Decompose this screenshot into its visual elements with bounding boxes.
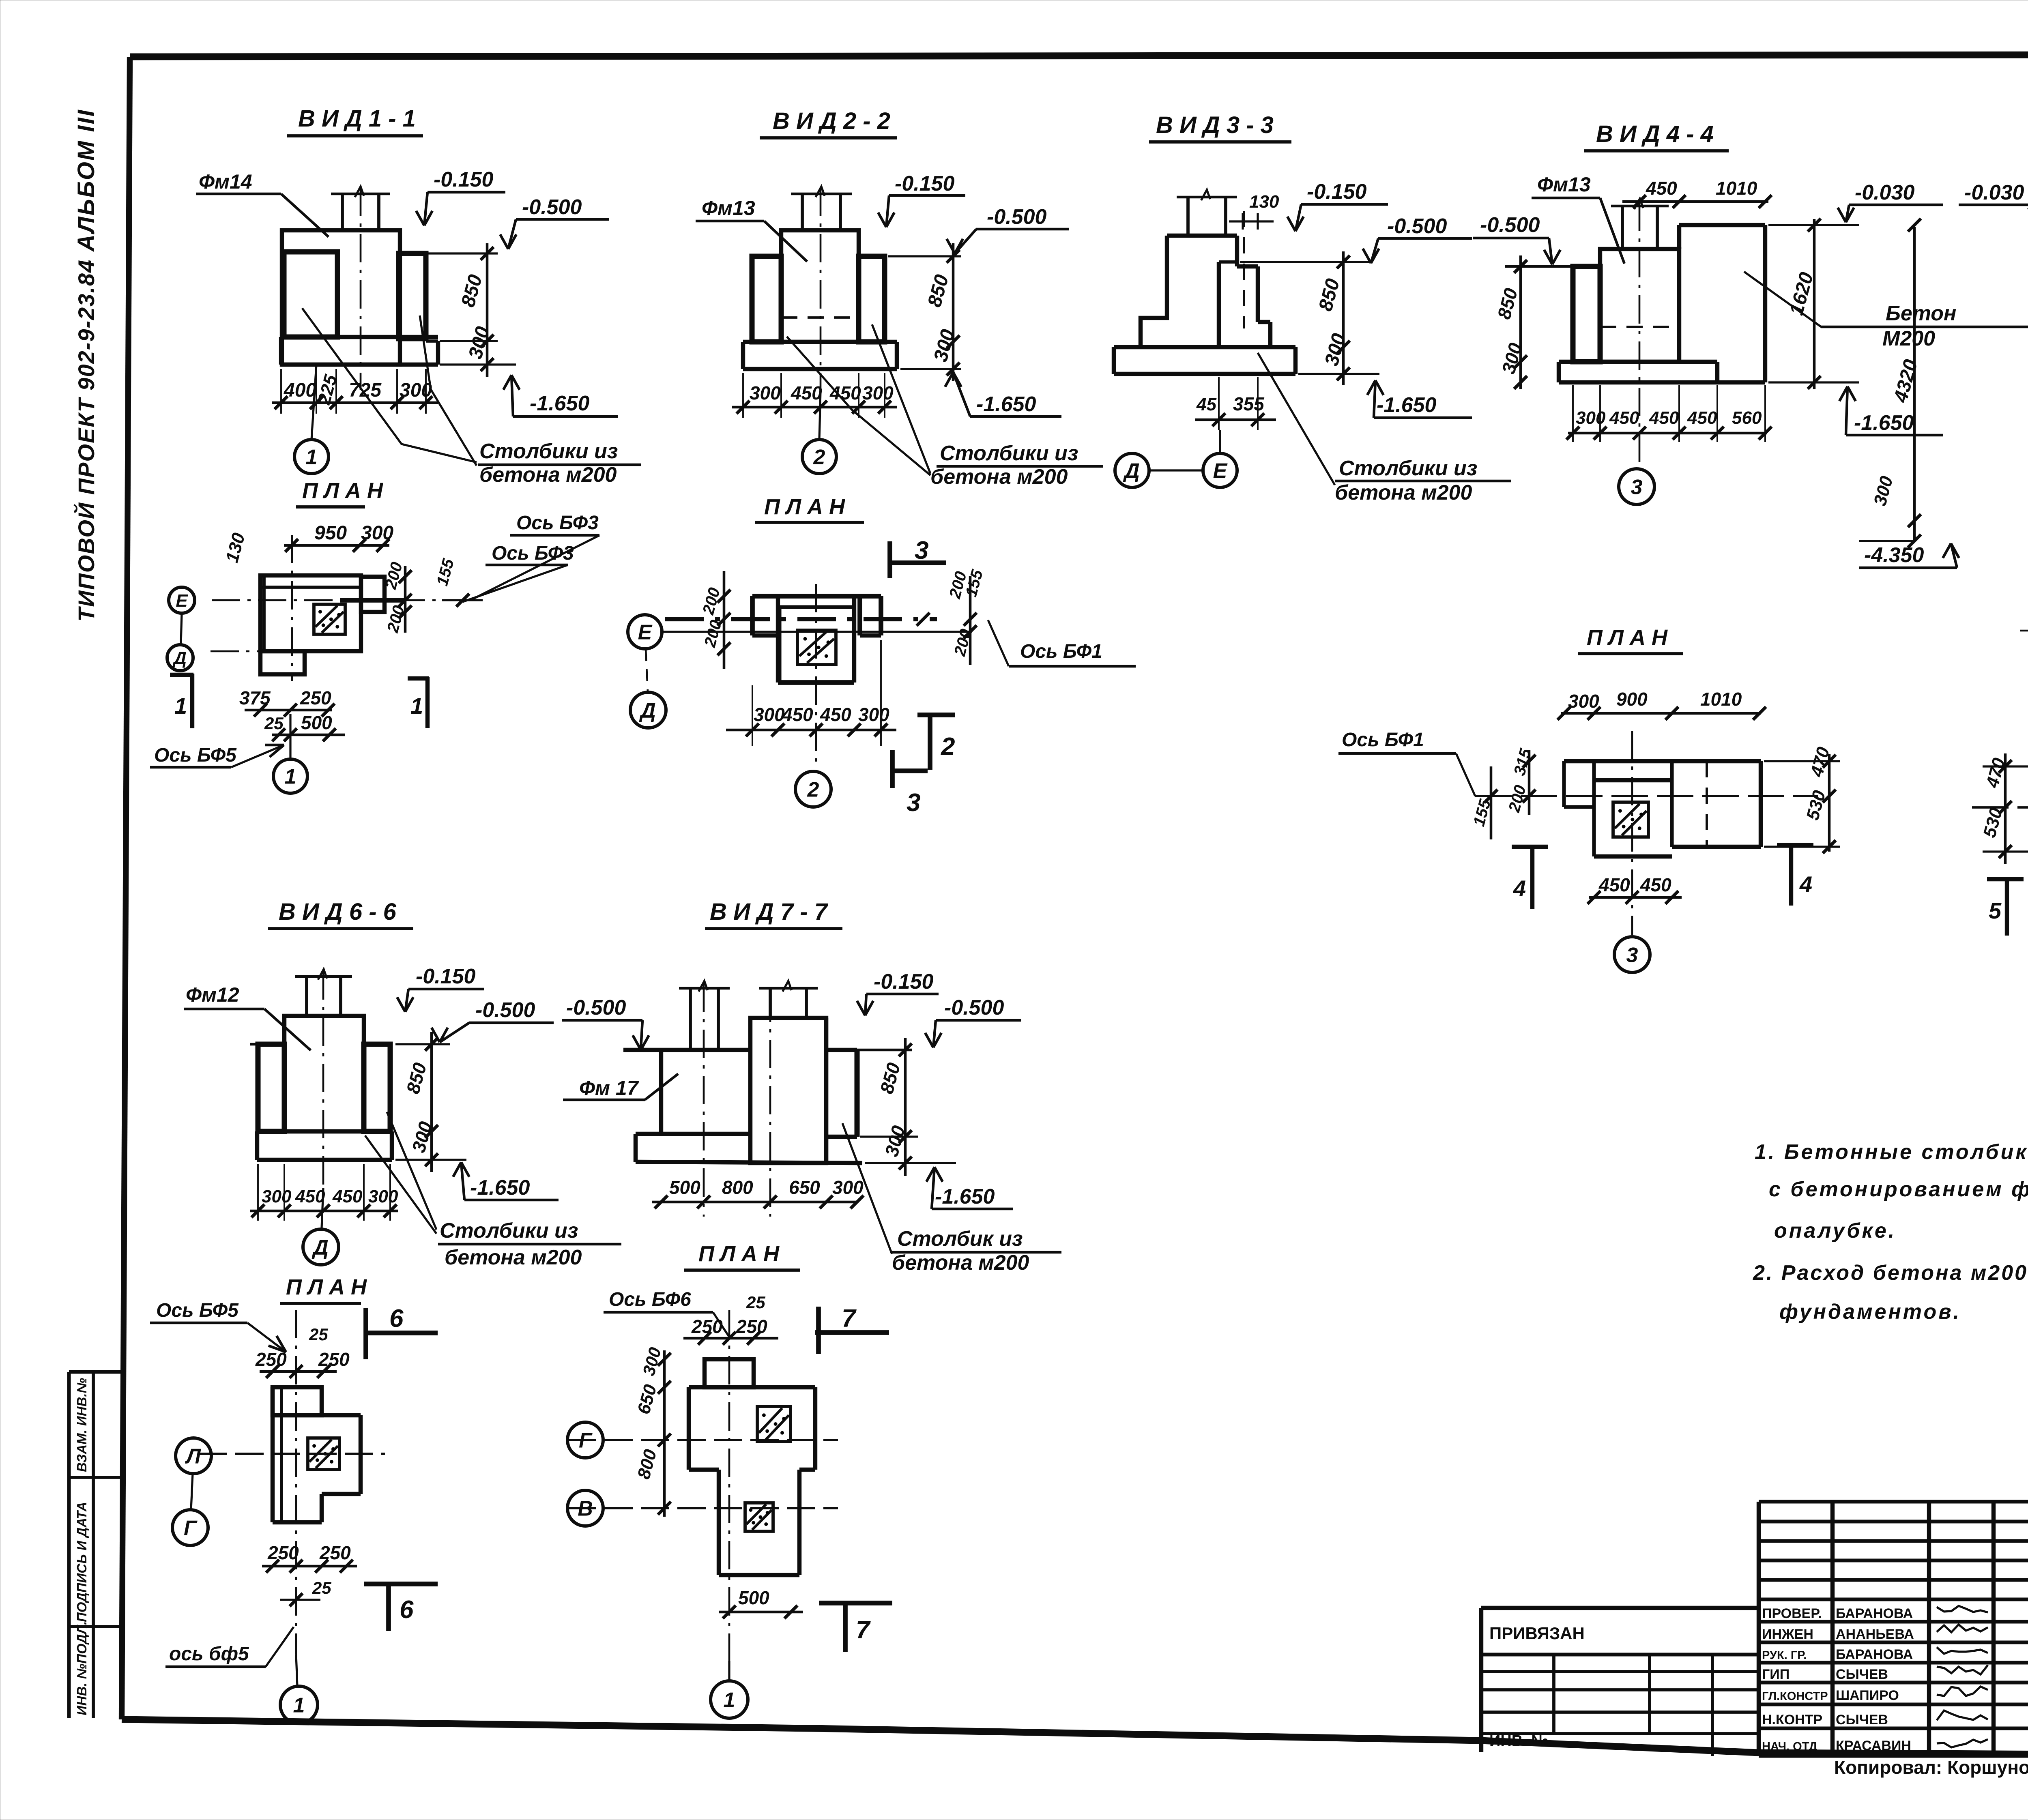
svg-text:450: 450 [820,704,851,725]
svg-text:560: 560 [1732,408,1762,428]
svg-text:900: 900 [1616,689,1648,710]
svg-text:250: 250 [736,1316,767,1337]
svg-text:В И Д 6 - 6: В И Д 6 - 6 [279,899,397,925]
svg-text:3: 3 [907,789,920,817]
svg-text:300: 300 [754,704,785,725]
svg-text:250: 250 [318,1349,350,1370]
svg-text:ПОДПИСЬ И ДАТА: ПОДПИСЬ И ДАТА [74,1502,89,1622]
svg-text:ШАПИРО: ШАПИРО [1836,1688,1899,1703]
svg-text:1: 1 [285,765,296,789]
svg-text:Ось БФ1: Ось БФ1 [1342,729,1424,751]
svg-text:300: 300 [368,1187,398,1206]
svg-text:-0.500: -0.500 [1480,213,1540,237]
svg-text:РУК. ГР.: РУК. ГР. [1762,1649,1807,1662]
svg-text:650: 650 [789,1177,820,1198]
svg-text:Фм13: Фм13 [702,197,755,219]
svg-text:НАЧ. ОТД: НАЧ. ОТД [1762,1740,1817,1753]
svg-text:П Л А Н: П Л А Н [698,1242,780,1266]
svg-text:Е: Е [1213,459,1228,483]
svg-text:В И Д 4 - 4: В И Д 4 - 4 [1596,121,1714,147]
svg-text:1: 1 [174,693,187,719]
svg-text:-0.030: -0.030 [1855,181,1915,204]
svg-text:300: 300 [361,522,393,544]
svg-text:СЫЧЕВ: СЫЧЕВ [1836,1712,1888,1728]
svg-text:500: 500 [301,712,332,733]
svg-text:-0.500: -0.500 [944,996,1004,1019]
svg-text:25: 25 [264,714,284,733]
svg-text:450: 450 [332,1187,363,1206]
svg-text:ИНЖЕН: ИНЖЕН [1762,1627,1813,1642]
svg-text:450: 450 [1609,408,1639,428]
svg-text:П Л А Н: П Л А Н [302,479,383,503]
svg-text:В И Д 7 - 7: В И Д 7 - 7 [710,899,829,925]
svg-text:4: 4 [1513,876,1526,901]
svg-text:130: 130 [1249,192,1279,212]
svg-text:2: 2 [807,778,819,802]
svg-text:с бетонированием фундаментов: с бетонированием фундаментов в той же [1769,1178,2028,1201]
svg-text:Ось БФ3: Ось БФ3 [492,543,574,564]
svg-text:6: 6 [389,1305,404,1333]
svg-text:1: 1 [724,1689,735,1712]
svg-text:2. Расход бетона м200 учте: 2. Расход бетона м200 учтен в объеме бет… [1753,1261,2028,1285]
svg-text:П Л А Н: П Л А Н [764,495,845,519]
svg-text:450: 450 [782,704,813,725]
svg-text:-0.500: -0.500 [987,205,1047,229]
svg-text:7: 7 [856,1616,871,1644]
svg-text:-0.150: -0.150 [1307,180,1367,204]
svg-text:-0.150: -0.150 [416,965,476,988]
svg-text:1010: 1010 [1700,689,1742,710]
svg-text:300: 300 [750,382,781,403]
svg-text:1: 1 [306,446,318,469]
svg-text:-0.150: -0.150 [874,970,934,994]
svg-text:7: 7 [842,1305,857,1333]
svg-text:300: 300 [262,1187,292,1206]
svg-text:М200: М200 [1882,327,1935,350]
svg-text:бетона м200: бетона м200 [892,1251,1029,1275]
svg-text:1: 1 [410,693,423,719]
svg-text:-0.500: -0.500 [475,998,535,1022]
svg-text:375: 375 [239,687,271,708]
svg-text:П Л А Н: П Л А Н [1587,625,1668,650]
svg-text:950: 950 [314,522,347,544]
svg-text:450: 450 [829,382,861,403]
svg-text:бетона м200: бетона м200 [1335,481,1472,504]
svg-text:-1.650: -1.650 [1377,393,1437,417]
svg-text:В: В [578,1497,593,1521]
svg-text:ИНВ. №: ИНВ. № [1489,1732,1549,1749]
svg-text:БАРАНОВА: БАРАНОВА [1836,1606,1913,1621]
svg-text:4: 4 [1799,871,1812,897]
svg-text:300: 300 [1568,691,1599,712]
svg-text:2: 2 [941,733,955,761]
svg-text:-1.650: -1.650 [976,393,1036,416]
svg-text:В И Д 1 - 1: В И Д 1 - 1 [298,105,416,132]
svg-text:Г: Г [184,1517,198,1540]
svg-text:25: 25 [309,1325,328,1344]
svg-text:3: 3 [1631,476,1643,499]
svg-text:1. Бетонные столбики выполня: 1. Бетонные столбики выполнять одновреме… [1755,1140,2028,1164]
svg-text:6: 6 [400,1596,414,1624]
svg-text:300: 300 [858,704,889,725]
svg-text:-0.150: -0.150 [895,172,955,195]
svg-text:бетона м200: бетона м200 [930,465,1068,489]
svg-text:45: 45 [1196,395,1216,414]
svg-text:300: 300 [1576,408,1606,428]
svg-text:450: 450 [1687,408,1717,428]
svg-text:Ось БФ5: Ось БФ5 [154,745,237,766]
svg-text:ГЛ.КОНСТР: ГЛ.КОНСТР [1762,1690,1828,1703]
svg-text:Е: Е [176,591,188,611]
svg-text:725: 725 [349,380,382,401]
svg-text:355: 355 [1233,393,1265,414]
svg-text:-0.150: -0.150 [434,168,494,191]
svg-text:В И Д 3 - 3: В И Д 3 - 3 [1156,112,1274,138]
svg-text:300: 300 [400,380,432,401]
svg-text:ИНВ. №ПОДЛ.: ИНВ. №ПОДЛ. [74,1621,89,1715]
svg-text:400: 400 [284,380,316,401]
svg-text:250: 250 [255,1349,287,1370]
svg-text:5: 5 [1989,898,2002,923]
svg-text:-0.500: -0.500 [522,195,582,219]
svg-text:Г: Г [579,1429,593,1453]
svg-text:450: 450 [1640,874,1671,895]
svg-text:ВЗАМ. ИНВ.№: ВЗАМ. ИНВ.№ [74,1378,89,1472]
svg-text:250: 250 [267,1542,299,1563]
svg-text:Столбики из: Столбики из [440,1219,578,1243]
svg-text:ПРИВЯЗАН: ПРИВЯЗАН [1489,1624,1585,1643]
svg-text:800: 800 [722,1177,753,1198]
svg-text:300: 300 [862,382,894,403]
svg-text:1010: 1010 [1716,178,1757,199]
svg-text:2: 2 [813,446,825,469]
svg-text:3: 3 [1626,944,1638,967]
svg-text:бетона м200: бетона м200 [479,463,617,487]
svg-text:Столбики из: Столбики из [479,440,618,463]
svg-text:СЫЧЕВ: СЫЧЕВ [1836,1667,1888,1682]
svg-text:ТИПОВОЙ ПРОЕКТ 902-9-23.84: ТИПОВОЙ ПРОЕКТ 902-9-23.84 [73,259,99,622]
svg-text:АЛЬБОМ III: АЛЬБОМ III [73,109,99,252]
svg-text:Д: Д [172,648,187,668]
svg-text:Н.КОНТР: Н.КОНТР [1762,1712,1822,1728]
svg-text:Ось БФ3: Ось БФ3 [516,512,599,534]
svg-text:450: 450 [1649,408,1679,428]
svg-text:Фм12: Фм12 [186,983,239,1006]
svg-text:-0.500: -0.500 [566,996,626,1019]
svg-text:Д: Д [1123,459,1140,483]
svg-text:Фм13: Фм13 [1537,173,1591,196]
svg-text:П Л А Н: П Л А Н [286,1275,367,1299]
svg-text:-0.500: -0.500 [1387,215,1447,238]
svg-text:Д: Д [639,699,656,723]
svg-text:Столбики из: Столбики из [1339,457,1477,480]
svg-text:В И Д 2 - 2: В И Д 2 - 2 [773,108,890,134]
svg-text:-1.650: -1.650 [470,1176,530,1200]
svg-text:ПРОВЕР.: ПРОВЕР. [1762,1606,1822,1621]
svg-text:ГИП: ГИП [1762,1667,1790,1682]
svg-text:450: 450 [295,1187,325,1206]
svg-text:-1.650: -1.650 [1854,411,1914,435]
svg-text:опалубке.: опалубке. [1774,1219,1896,1243]
svg-text:250: 250 [691,1316,723,1337]
svg-text:АНАНЬЕВА: АНАНЬЕВА [1836,1627,1914,1642]
svg-text:Фм14: Фм14 [199,170,252,193]
svg-text:25: 25 [746,1293,765,1312]
svg-text:БАРАНОВА: БАРАНОВА [1836,1647,1913,1662]
svg-text:-0.030: -0.030 [1964,181,2024,204]
svg-text:фундаментов.: фундаментов. [1779,1300,1961,1324]
svg-text:Столбики из: Столбики из [940,442,1078,465]
svg-text:25: 25 [312,1578,331,1597]
svg-text:Ось БФ5: Ось БФ5 [156,1300,239,1321]
svg-text:500: 500 [738,1587,769,1608]
svg-text:бетона м200: бетона м200 [445,1246,582,1269]
svg-text:Д: Д [312,1236,329,1260]
svg-text:Ось БФ6: Ось БФ6 [609,1289,691,1310]
svg-text:450: 450 [1646,178,1677,199]
svg-text:1: 1 [293,1694,305,1717]
svg-text:Бетон: Бетон [1886,302,1956,325]
svg-text:-1.650: -1.650 [935,1185,995,1208]
svg-text:Столбик из: Столбик из [897,1227,1023,1251]
svg-text:300: 300 [832,1177,864,1198]
svg-text:Фм 17: Фм 17 [579,1077,639,1099]
svg-text:3: 3 [915,537,928,564]
svg-text:500: 500 [669,1177,700,1198]
svg-text:450: 450 [791,382,822,403]
svg-text:-1.650: -1.650 [530,392,590,415]
svg-text:Копировал: Коршунова: Копировал: Коршунова [1834,1757,2028,1778]
svg-text:250: 250 [319,1542,351,1563]
svg-text:КРАСАВИН: КРАСАВИН [1836,1738,1911,1753]
svg-text:ось бф5: ось бф5 [169,1643,249,1665]
svg-text:Ось БФ1: Ось БФ1 [1020,641,1102,662]
svg-text:-4.350: -4.350 [1864,543,1924,567]
svg-text:450: 450 [1598,874,1630,895]
svg-text:Л: Л [185,1445,201,1468]
svg-text:250: 250 [300,687,331,708]
svg-text:Е: Е [638,621,653,644]
